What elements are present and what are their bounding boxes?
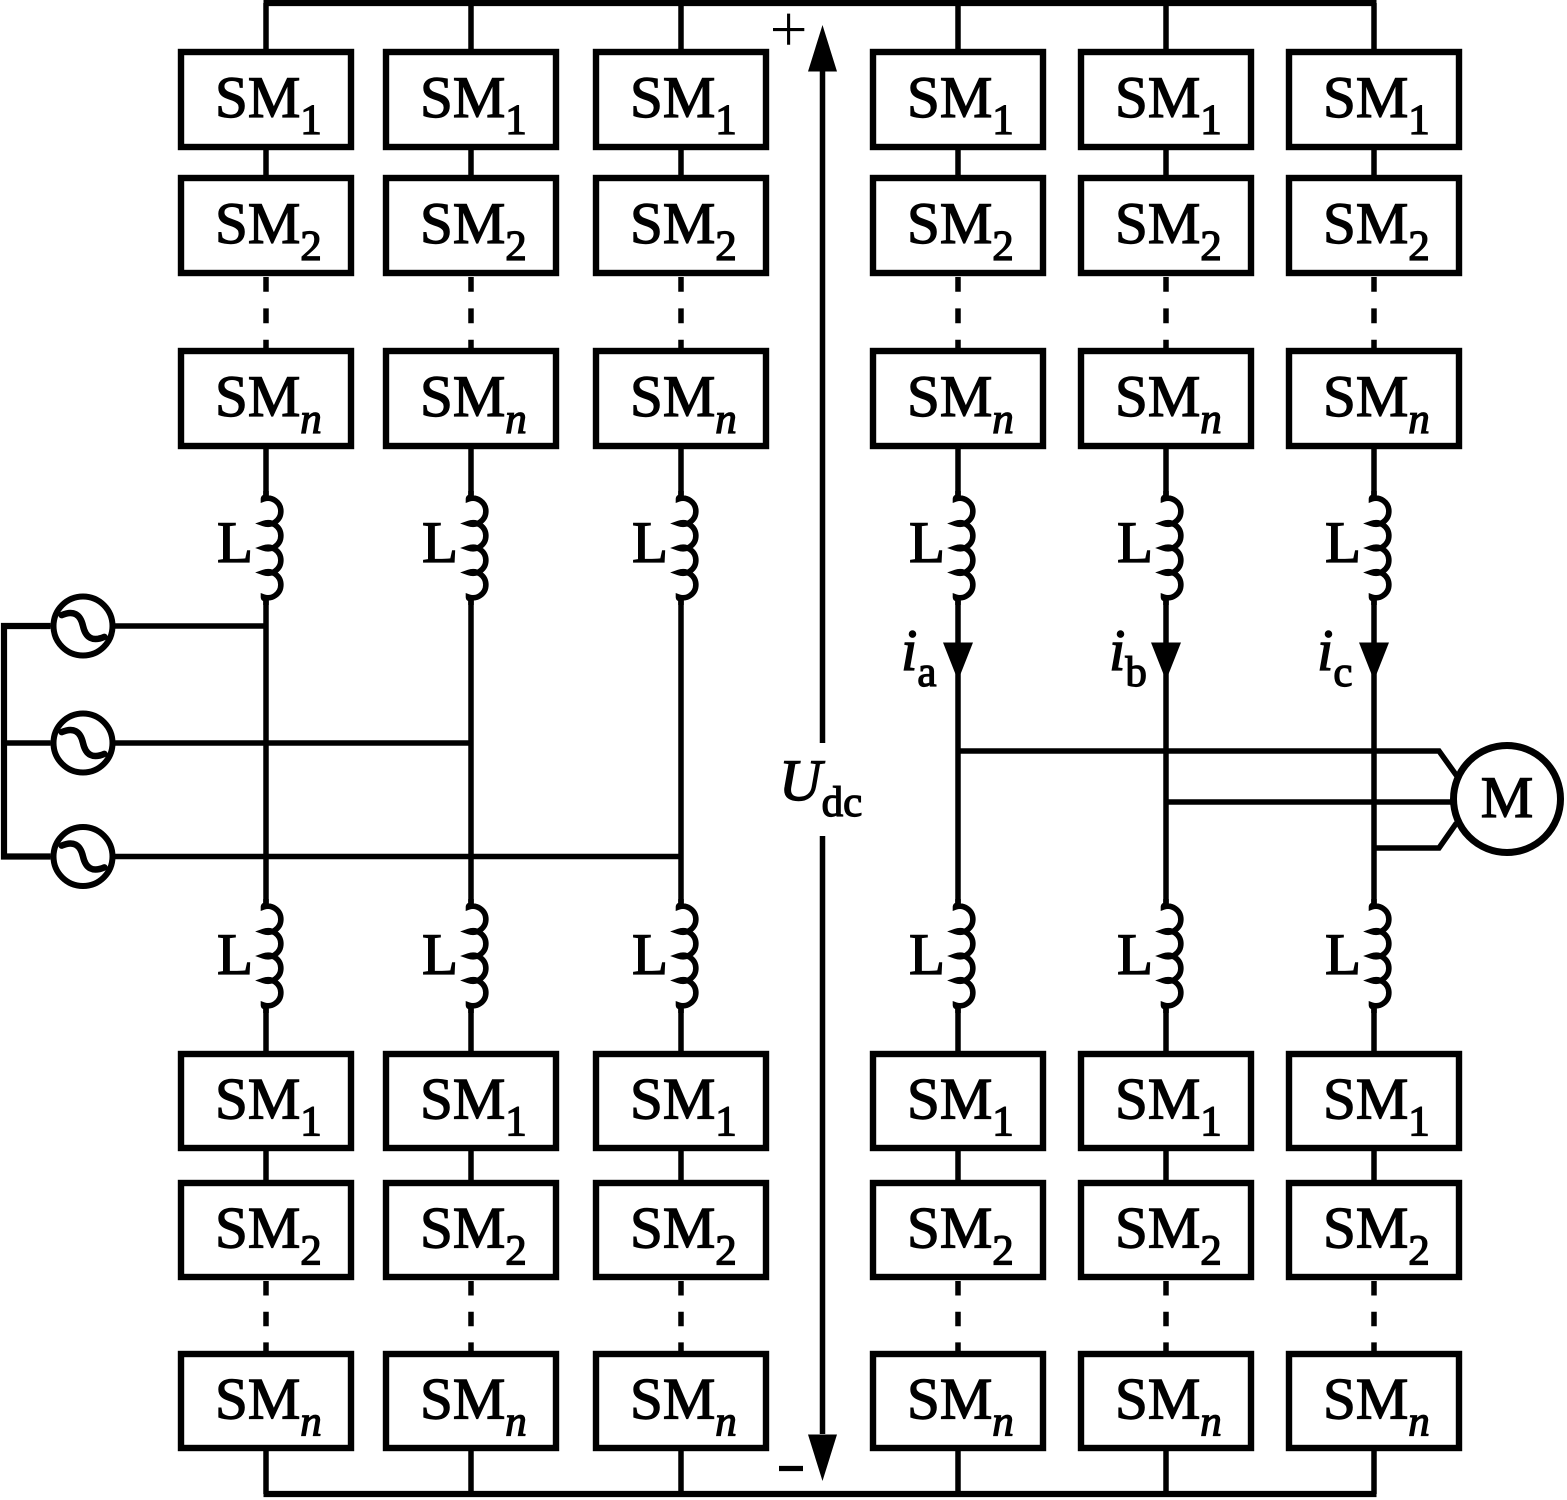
wire: upper arm lead phase-b rectifier bbox=[468, 448, 474, 498]
node: bottom DC bus tap phase-b rectifier bbox=[468, 1450, 474, 1494]
submodule SM2 lower arm phase-b rectifier bbox=[386, 1183, 556, 1277]
wire: positive DC bus (top) bbox=[264, 0, 1377, 6]
submodule SM1 lower arm phase-b inverter bbox=[1081, 1054, 1251, 1148]
wire: series link phase-c inverter lower arm bbox=[1371, 1150, 1377, 1181]
inductor L upper arm phase-a rectifier bbox=[217, 491, 281, 605]
wire: motor phase b line bbox=[1166, 799, 1453, 805]
wire: phase leg phase-c rectifier bbox=[678, 598, 684, 906]
wire: upper arm lead phase-a inverter bbox=[955, 448, 961, 498]
submodule SM2 upper arm phase-a rectifier bbox=[181, 178, 351, 273]
wire: lower arm lead phase-c inverter bbox=[1371, 1006, 1377, 1052]
wire: phase leg phase-b rectifier bbox=[468, 598, 474, 906]
wire: dashed series link phase-a inverter lower arm bbox=[955, 1281, 961, 1351]
wire: dashed series link phase-b inverter lower arm bbox=[1163, 1281, 1169, 1351]
submodule SMn lower arm phase-c rectifier bbox=[596, 1354, 766, 1448]
wire: upper arm lead phase-c inverter bbox=[1371, 448, 1377, 498]
wire: upper arm lead phase-a rectifier bbox=[263, 448, 269, 498]
submodule SMn upper arm phase-b inverter bbox=[1081, 351, 1251, 446]
wire: phase leg phase-c inverter bbox=[1371, 598, 1377, 906]
inductor L lower arm phase-b rectifier bbox=[422, 899, 486, 1013]
wire: dashed series link phase-a rectifier upper arm bbox=[263, 277, 269, 348]
submodule SM1 upper arm phase-a rectifier bbox=[181, 52, 351, 147]
wire: U_dc measurement arrow upper shaft bbox=[820, 68, 826, 743]
arrowhead: output current direction i_b bbox=[1151, 643, 1181, 681]
node: bottom DC bus tap phase-b inverter bbox=[1163, 1450, 1169, 1494]
wire: dashed series link phase-c inverter upper arm bbox=[1371, 277, 1377, 348]
node: top DC bus tap phase-a inverter bbox=[955, 3, 961, 51]
submodule SMn upper arm phase-a inverter bbox=[873, 351, 1043, 446]
submodule SM2 lower arm phase-b inverter bbox=[1081, 1183, 1251, 1277]
submodule SM1 lower arm phase-a inverter bbox=[873, 1054, 1043, 1148]
submodule SM1 upper arm phase-c inverter bbox=[1289, 52, 1459, 147]
svg-text:L: L bbox=[422, 921, 458, 987]
label: minus sign of U_dc bbox=[779, 1466, 803, 1471]
submodule SM2 lower arm phase-a rectifier bbox=[181, 1183, 351, 1277]
inductor L upper arm phase-b inverter bbox=[1117, 491, 1181, 605]
wire: grid phase b line bbox=[115, 740, 472, 746]
submodule SMn upper arm phase-c rectifier bbox=[596, 351, 766, 446]
submodule SM2 lower arm phase-a inverter bbox=[873, 1183, 1043, 1277]
svg-text:L: L bbox=[1117, 921, 1153, 987]
wire: upper arm lead phase-c rectifier bbox=[678, 448, 684, 498]
wire: lower arm lead phase-a rectifier bbox=[263, 1006, 269, 1052]
submodule SM1 lower arm phase-b rectifier bbox=[386, 1054, 556, 1148]
arrowhead: U_dc top bbox=[808, 25, 837, 72]
submodule SMn lower arm phase-b inverter bbox=[1081, 1354, 1251, 1448]
motor M bbox=[1454, 746, 1561, 853]
inductor L upper arm phase-c inverter bbox=[1325, 491, 1389, 605]
svg-text:L: L bbox=[909, 509, 945, 575]
submodule SM2 lower arm phase-c inverter bbox=[1289, 1183, 1459, 1277]
wire: dashed series link phase-a rectifier lower arm bbox=[263, 1281, 269, 1351]
submodule SM1 lower arm phase-a rectifier bbox=[181, 1054, 351, 1148]
wire: U_dc measurement arrow lower shaft bbox=[820, 836, 826, 1434]
wire: dashed series link phase-c inverter lower arm bbox=[1371, 1281, 1377, 1351]
wire: series link phase-c rectifier lower arm bbox=[678, 1150, 684, 1181]
submodule SMn lower arm phase-a rectifier bbox=[181, 1354, 351, 1448]
wire: series link phase-c inverter upper arm bbox=[1371, 149, 1377, 176]
svg-text:L: L bbox=[632, 509, 668, 575]
svg-text:L: L bbox=[632, 921, 668, 987]
inductor L lower arm phase-a inverter bbox=[909, 899, 973, 1013]
wire: phase leg phase-a rectifier bbox=[263, 598, 269, 906]
wire: dashed series link phase-a inverter upper arm bbox=[955, 277, 961, 348]
wire: motor phase c line bbox=[1374, 823, 1457, 848]
node: top DC bus tap phase-a rectifier bbox=[263, 3, 269, 51]
submodule SM2 upper arm phase-c inverter bbox=[1289, 178, 1459, 273]
wire: grid source b left stub bbox=[4, 740, 51, 746]
node: bottom DC bus tap phase-a inverter bbox=[955, 1450, 961, 1494]
wire: lower arm lead phase-b rectifier bbox=[468, 1006, 474, 1052]
wire: negative DC bus (bottom) bbox=[264, 1491, 1377, 1497]
node: top DC bus tap phase-c rectifier bbox=[678, 3, 684, 51]
svg-text:L: L bbox=[1325, 921, 1361, 987]
wire: dashed series link phase-b inverter upper arm bbox=[1163, 277, 1169, 348]
submodule SMn lower arm phase-c inverter bbox=[1289, 1354, 1459, 1448]
node: top DC bus tap phase-b rectifier bbox=[468, 3, 474, 51]
submodule SM2 upper arm phase-b inverter bbox=[1081, 178, 1251, 273]
wire: series link phase-a rectifier upper arm bbox=[263, 149, 269, 176]
submodule SM1 lower arm phase-c rectifier bbox=[596, 1054, 766, 1148]
submodule SMn lower arm phase-a inverter bbox=[873, 1354, 1043, 1448]
wire: series link phase-a rectifier lower arm bbox=[263, 1150, 269, 1181]
svg-text:L: L bbox=[1117, 509, 1153, 575]
wire: upper arm lead phase-b inverter bbox=[1163, 448, 1169, 498]
wire: dashed series link phase-c rectifier lower arm bbox=[678, 1281, 684, 1351]
node: bottom DC bus tap phase-c inverter bbox=[1371, 1450, 1377, 1494]
submodule SMn upper arm phase-c inverter bbox=[1289, 351, 1459, 446]
wire: grid neutral bus (left) bbox=[4, 626, 51, 857]
node: bottom DC bus tap phase-c rectifier bbox=[678, 1450, 684, 1494]
submodule SM2 upper arm phase-c rectifier bbox=[596, 178, 766, 273]
wire: lower arm lead phase-a inverter bbox=[955, 1006, 961, 1052]
wire: lower arm lead phase-b inverter bbox=[1163, 1006, 1169, 1052]
wire: series link phase-a inverter upper arm bbox=[955, 149, 961, 176]
node: top DC bus tap phase-b inverter bbox=[1163, 3, 1169, 51]
submodule SM1 upper arm phase-a inverter bbox=[873, 52, 1043, 147]
node: top DC bus tap phase-c inverter bbox=[1371, 3, 1377, 51]
submodule SM1 upper arm phase-b inverter bbox=[1081, 52, 1251, 147]
arrowhead: output current direction i_a bbox=[943, 643, 973, 681]
label: plus sign of U_dc bbox=[773, 14, 804, 45]
svg-text:L: L bbox=[217, 509, 253, 575]
wire: dashed series link phase-b rectifier lower arm bbox=[468, 1281, 474, 1351]
wire: motor phase a line bbox=[958, 751, 1457, 776]
svg-text:L: L bbox=[909, 921, 945, 987]
submodule SMn upper arm phase-b rectifier bbox=[386, 351, 556, 446]
inductor L upper arm phase-b rectifier bbox=[422, 491, 486, 605]
arrowhead: U_dc bottom bbox=[808, 1435, 837, 1482]
arrowhead: output current direction i_c bbox=[1359, 643, 1389, 681]
wire: grid phase a line bbox=[115, 623, 267, 629]
inductor L lower arm phase-b inverter bbox=[1117, 899, 1181, 1013]
submodule SMn lower arm phase-b rectifier bbox=[386, 1354, 556, 1448]
svg-text:M: M bbox=[1481, 764, 1533, 830]
wire: series link phase-b inverter lower arm bbox=[1163, 1150, 1169, 1181]
submodule SM1 lower arm phase-c inverter bbox=[1289, 1054, 1459, 1148]
wire: series link phase-b inverter upper arm bbox=[1163, 149, 1169, 176]
svg-text:L: L bbox=[217, 921, 253, 987]
inductor L upper arm phase-a inverter bbox=[909, 491, 973, 605]
wire: lower arm lead phase-c rectifier bbox=[678, 1006, 684, 1052]
node: bottom DC bus tap phase-a rectifier bbox=[263, 1450, 269, 1494]
wire: phase leg phase-a inverter bbox=[955, 598, 961, 906]
svg-text:L: L bbox=[422, 509, 458, 575]
wire: series link phase-a inverter lower arm bbox=[955, 1150, 961, 1181]
AC voltage source Vb (grid phase b) bbox=[54, 714, 113, 773]
wire: series link phase-c rectifier upper arm bbox=[678, 149, 684, 176]
inductor L upper arm phase-c rectifier bbox=[632, 491, 696, 605]
submodule SM2 upper arm phase-b rectifier bbox=[386, 178, 556, 273]
wire: series link phase-b rectifier upper arm bbox=[468, 149, 474, 176]
submodule SM1 upper arm phase-c rectifier bbox=[596, 52, 766, 147]
wire: phase leg phase-b inverter bbox=[1163, 598, 1169, 906]
inductor L lower arm phase-a rectifier bbox=[217, 899, 281, 1013]
submodule SM2 upper arm phase-a inverter bbox=[873, 178, 1043, 273]
AC voltage source Va (grid phase a) bbox=[54, 597, 113, 656]
submodule SMn upper arm phase-a rectifier bbox=[181, 351, 351, 446]
wire: dashed series link phase-c rectifier upper arm bbox=[678, 277, 684, 348]
submodule SM1 upper arm phase-b rectifier bbox=[386, 52, 556, 147]
submodule SM2 lower arm phase-c rectifier bbox=[596, 1183, 766, 1277]
inductor L lower arm phase-c rectifier bbox=[632, 899, 696, 1013]
AC voltage source Vc (grid phase c) bbox=[54, 827, 113, 886]
wire: grid phase c line bbox=[115, 854, 682, 860]
wire: dashed series link phase-b rectifier upper arm bbox=[468, 277, 474, 348]
svg-text:L: L bbox=[1325, 509, 1361, 575]
inductor L lower arm phase-c inverter bbox=[1325, 899, 1389, 1013]
wire: series link phase-b rectifier lower arm bbox=[468, 1150, 474, 1181]
